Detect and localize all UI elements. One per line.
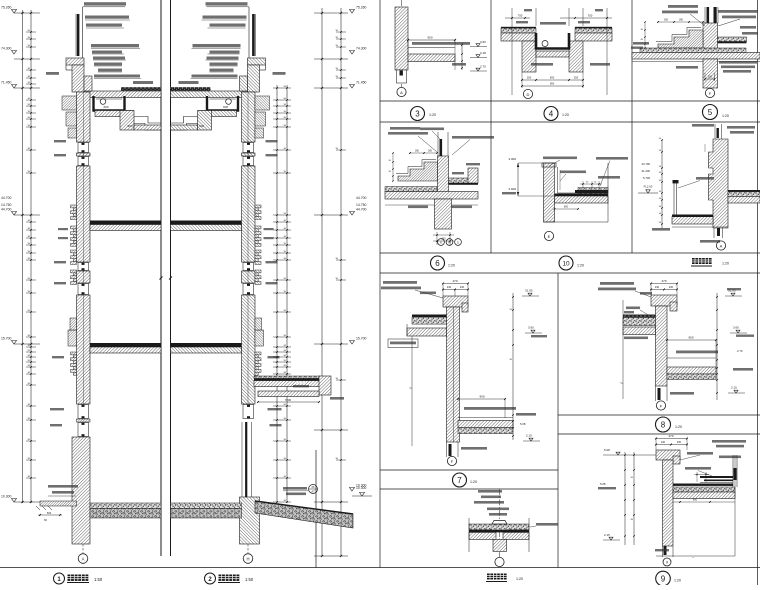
svg-text:600: 600	[693, 499, 698, 502]
svg-text:240: 240	[655, 286, 660, 289]
svg-text:1:20: 1:20	[722, 114, 729, 118]
svg-text:5.08: 5.08	[600, 482, 606, 486]
svg-text:2.70: 2.70	[737, 349, 743, 353]
section break lines	[160, 0, 162, 556]
roof gutter	[207, 96, 238, 111]
roof slab	[121, 87, 161, 91]
svg-text:200: 200	[708, 76, 713, 79]
svg-text:3.60: 3.60	[480, 40, 486, 44]
svg-text:44.700: 44.700	[356, 196, 366, 200]
svg-text:2.15: 2.15	[604, 533, 610, 537]
joint bubble	[495, 557, 504, 566]
wall moldings	[62, 96, 77, 110]
svg-text:470: 470	[661, 279, 666, 283]
svg-text:74.300: 74.300	[356, 47, 366, 51]
svg-text:470: 470	[452, 279, 457, 283]
wall	[242, 92, 256, 142]
level 10.300	[360, 493, 365, 497]
svg-text:6: 6	[435, 259, 440, 268]
section 1 ground/pavement	[48, 485, 78, 488]
svg-text:1:20: 1:20	[675, 425, 682, 429]
svg-text:300: 300	[415, 150, 420, 153]
detail 7	[381, 279, 547, 487]
svg-text:71.450: 71.450	[1, 81, 11, 85]
svg-text:~: ~	[620, 381, 623, 387]
svg-text:A: A	[82, 556, 85, 561]
basement slab	[90, 503, 161, 509]
svg-text:7: 7	[457, 476, 462, 485]
svg-text:2.600: 2.600	[508, 187, 516, 191]
label 5	[703, 105, 718, 120]
label 4	[544, 107, 558, 121]
svg-text:300: 300	[679, 19, 684, 22]
grid bubble F (detail 7)	[447, 456, 456, 465]
svg-text:9: 9	[661, 575, 666, 584]
svg-text:7200: 7200	[285, 398, 292, 402]
svg-text:600: 600	[103, 105, 108, 109]
svg-text:900: 900	[479, 395, 484, 399]
svg-text:300: 300	[428, 150, 433, 153]
svg-text:2.15: 2.15	[731, 386, 737, 390]
svg-text:41.200: 41.200	[641, 169, 650, 173]
label 分隔缝	[487, 574, 493, 580]
section 1 level marks	[12, 10, 17, 14]
svg-text:470: 470	[668, 434, 673, 438]
svg-text:31.05: 31.05	[525, 289, 533, 293]
detail 5	[631, 5, 760, 120]
svg-text:250: 250	[574, 76, 579, 80]
wall moldings	[255, 96, 270, 110]
svg-text:D: D	[527, 92, 530, 97]
svg-text:1:20: 1:20	[470, 480, 477, 484]
label 1 墙身一	[54, 573, 65, 584]
reference bubble	[309, 485, 318, 494]
detail 4	[501, 8, 612, 121]
svg-text:2.15: 2.15	[526, 434, 532, 438]
svg-text:900: 900	[688, 336, 693, 340]
svg-text:1:50: 1:50	[245, 577, 254, 582]
label 7	[453, 473, 467, 487]
section 1 dimension chain	[22, 10, 24, 503]
detail 6	[385, 127, 494, 270]
svg-text:10: 10	[562, 261, 570, 268]
svg-text:600: 600	[47, 511, 52, 515]
svg-text:600: 600	[223, 105, 228, 109]
grid bubble H	[247, 544, 249, 553]
svg-text:3.18: 3.18	[480, 51, 486, 55]
svg-text:300: 300	[664, 19, 669, 22]
parapet	[66, 58, 84, 65]
svg-text:1:20: 1:20	[429, 113, 436, 117]
svg-text:900: 900	[427, 36, 432, 40]
svg-text:71.450: 71.450	[356, 81, 366, 85]
svg-text:240: 240	[661, 441, 666, 444]
roof annotations	[207, 6, 250, 8]
grid bubble D	[523, 89, 532, 98]
svg-text:E: E	[548, 234, 551, 239]
svg-text:44.700: 44.700	[1, 196, 11, 200]
svg-text:FL2.00: FL2.00	[644, 185, 653, 189]
roof gutter	[94, 96, 125, 111]
svg-text:250: 250	[527, 76, 532, 80]
svg-text:14.750: 14.750	[356, 203, 366, 207]
svg-text:1:20: 1:20	[516, 577, 523, 581]
section 2 sloped ground	[255, 501, 353, 528]
svg-text:600: 600	[550, 76, 555, 80]
svg-text:2.70: 2.70	[480, 65, 486, 69]
svg-text:A: A	[720, 243, 723, 248]
svg-text:5.08: 5.08	[604, 448, 610, 452]
svg-text:1:20: 1:20	[577, 264, 584, 268]
svg-text:9: 9	[666, 561, 668, 565]
svg-text:600: 600	[564, 206, 569, 209]
label 3	[411, 107, 425, 121]
svg-text:3.000: 3.000	[508, 157, 516, 161]
floor slabs	[90, 221, 161, 225]
svg-text:44.700: 44.700	[1, 208, 11, 212]
svg-text:900: 900	[550, 82, 555, 86]
svg-text:3.60: 3.60	[733, 326, 739, 330]
detail 9	[598, 434, 746, 586]
svg-text:3: 3	[415, 110, 420, 119]
roof slab	[171, 87, 211, 91]
detail 分隔缝 (separation joint)	[469, 489, 558, 582]
label 6	[431, 256, 445, 270]
svg-text:700: 700	[518, 14, 523, 18]
svg-text:8: 8	[661, 421, 666, 430]
svg-text:230: 230	[669, 286, 674, 289]
roof railing	[248, 7, 250, 60]
grid bubble F	[705, 88, 714, 97]
svg-text:H: H	[246, 556, 249, 561]
grid bubble 9	[663, 558, 671, 566]
svg-text:10.300: 10.300	[1, 495, 11, 499]
svg-text:44.700: 44.700	[356, 208, 366, 212]
svg-text:1:50: 1:50	[94, 577, 103, 582]
svg-text:A: A	[400, 90, 403, 95]
wall	[77, 92, 91, 142]
svg-text:5.700: 5.700	[643, 176, 650, 180]
detail 8	[598, 279, 754, 432]
svg-text:75.260: 75.260	[356, 6, 366, 10]
svg-text:700: 700	[588, 14, 593, 18]
wall section 1 (墙身一)	[46, 2, 161, 544]
svg-text:H: H	[448, 241, 450, 245]
svg-text:5.08: 5.08	[520, 422, 526, 426]
sheet grid lines	[0, 567, 760, 569]
wall section 2 (墙身二, mirrored)	[171, 2, 286, 544]
svg-text:5: 5	[708, 108, 713, 117]
svg-text:1:20: 1:20	[448, 264, 455, 268]
svg-text:3.60: 3.60	[528, 326, 534, 330]
svg-text:900: 900	[127, 124, 132, 128]
svg-text:1:20: 1:20	[722, 262, 729, 266]
svg-text:240: 240	[447, 286, 452, 289]
svg-text:74.300: 74.300	[1, 47, 11, 51]
roof railing	[82, 7, 84, 60]
svg-text:1:20: 1:20	[562, 113, 569, 117]
svg-text:230: 230	[460, 286, 465, 289]
svg-text:A7: A7	[311, 490, 315, 494]
svg-text:15.700: 15.700	[356, 337, 366, 341]
label 空调板	[692, 258, 698, 264]
section 2 dimension chains	[276, 85, 278, 503]
svg-text:1:20: 1:20	[674, 579, 681, 583]
bubbles 6 H 5	[438, 239, 445, 246]
svg-text:44.700: 44.700	[641, 162, 650, 166]
section 2 level marks	[350, 10, 355, 14]
detail 3	[395, 0, 487, 121]
section 2 canopy	[254, 376, 320, 378]
svg-text:4: 4	[549, 110, 554, 119]
svg-text:230: 230	[677, 441, 682, 444]
grid bubble E	[544, 231, 553, 240]
label 8	[656, 417, 671, 432]
svg-text:10.300: 10.300	[356, 486, 366, 490]
svg-text:75.260: 75.260	[1, 6, 11, 10]
svg-text:~: ~	[409, 386, 412, 392]
grid bubble F (detail 8)	[656, 401, 665, 410]
detail 10	[502, 157, 628, 271]
roof annotations	[83, 6, 126, 8]
svg-text:14.750: 14.750	[1, 203, 11, 207]
parapet	[248, 58, 266, 65]
grid bubble A (AC)	[716, 241, 725, 250]
grid bubble A (detail 3)	[397, 87, 406, 96]
label 10	[559, 256, 573, 270]
label 2 墙身二	[205, 573, 216, 584]
svg-text:15.700: 15.700	[1, 337, 11, 341]
detail 空调板 (AC slab)	[638, 124, 760, 266]
basement slab	[171, 503, 242, 509]
grid bubble A	[82, 544, 84, 553]
svg-text:900: 900	[199, 124, 204, 128]
label 9	[656, 571, 671, 586]
floor slabs	[171, 221, 242, 225]
